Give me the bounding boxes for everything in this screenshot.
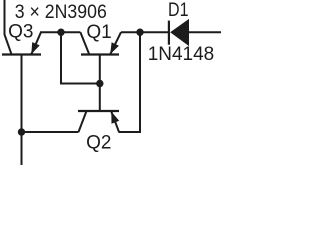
svg-text:Q3: Q3 [8,22,33,43]
wire: base junction down to Q2 base [99,84,101,112]
wire: top rail, Q3 emitter to Q1 collector [40,31,80,33]
diode D1 [169,19,189,46]
wire: Q3 collector lead to top edge [4,0,6,35]
junction node A [57,29,64,36]
svg-text:1N4148: 1N4148 [148,44,215,65]
wire: node A down and right to base junction [61,32,99,83]
wire: Q3 base lead down to bottom edge [21,55,23,166]
svg-text:Q1: Q1 [86,22,111,43]
junction node C [18,128,25,135]
svg-text:Q2: Q2 [86,132,111,153]
wire: D1 anode to right edge [189,31,221,33]
wire: Q2 emitter right and up to node B [119,32,141,132]
svg-text:D1: D1 [168,0,189,21]
transistor Q2 [78,111,119,132]
wire: Q2 collector to node C [22,131,79,133]
junction node B [136,29,143,36]
wire: Q1 emitter to D1 cathode [121,31,168,33]
transistor Q3 [2,32,41,54]
wire: Q1 base lead [99,55,101,84]
junction: common base node of Q1 and Q2 [96,80,103,87]
svg-text:3 × 2N3906: 3 × 2N3906 [15,1,107,23]
transistor Q1 [80,32,121,54]
